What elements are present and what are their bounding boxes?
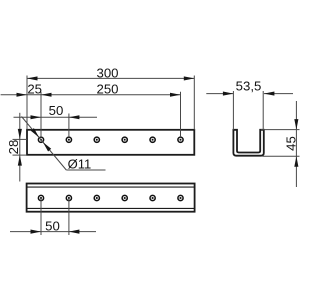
svg-text:Ø11: Ø11 <box>68 156 92 171</box>
svg-text:45: 45 <box>283 136 298 151</box>
svg-text:28: 28 <box>6 140 21 155</box>
svg-text:300: 300 <box>96 65 118 80</box>
svg-text:25: 25 <box>27 81 42 96</box>
svg-text:50: 50 <box>49 103 64 118</box>
svg-text:250: 250 <box>96 81 118 96</box>
svg-text:53,5: 53,5 <box>236 79 262 94</box>
svg-text:50: 50 <box>45 218 60 233</box>
